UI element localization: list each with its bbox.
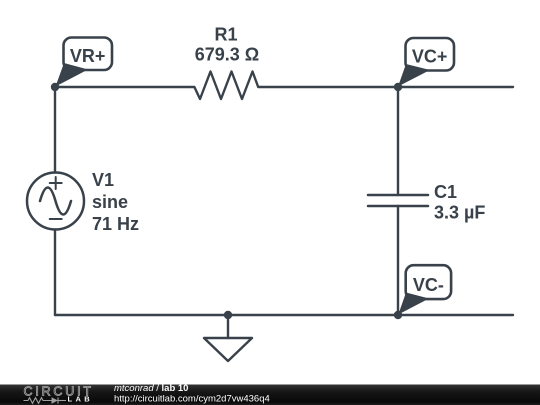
svg-text:71 Hz: 71 Hz: [92, 214, 139, 234]
svg-text:LAB: LAB: [68, 395, 94, 404]
svg-text:679.3 Ω: 679.3 Ω: [195, 44, 259, 64]
svg-text:3.3 µF: 3.3 µF: [434, 203, 485, 223]
svg-text:C1: C1: [434, 182, 457, 202]
svg-text:VC+: VC+: [412, 47, 448, 67]
svg-text:VC-: VC-: [413, 275, 444, 295]
svg-text:http://circuitlab.com/cym2d7vw: http://circuitlab.com/cym2d7vw436q4: [114, 394, 270, 405]
svg-text:mtconrad / lab 10: mtconrad / lab 10: [114, 383, 188, 394]
svg-text:VR+: VR+: [70, 46, 106, 66]
svg-text:sine: sine: [92, 192, 128, 212]
svg-text:R1: R1: [214, 24, 237, 44]
svg-text:V1: V1: [92, 170, 114, 190]
